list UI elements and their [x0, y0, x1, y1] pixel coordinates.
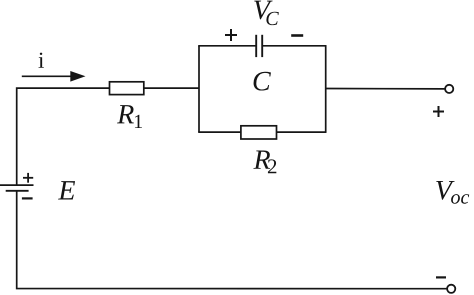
label V_C: [254, 1, 279, 26]
label R2: [253, 150, 276, 173]
minus sign at battery: [22, 197, 33, 199]
plus sign at battery: [23, 173, 33, 183]
wire: left vertical bottom segment and bottom wire to terminal: [17, 191, 447, 289]
wire: parallel block bottom-right segment: [277, 131, 327, 133]
plus sign at top terminal: [433, 106, 444, 117]
wire: node to top terminal: [326, 88, 445, 90]
wire: parallel block left side: [198, 46, 200, 132]
battery E: short plate: [6, 190, 29, 192]
current arrow: [22, 71, 86, 82]
label R1: [117, 105, 142, 128]
current label i: [38, 53, 43, 68]
resistor R1: [110, 82, 144, 95]
wire: parallel block top-left segment: [198, 45, 256, 47]
label E: [58, 181, 75, 199]
label V_oc: [436, 181, 469, 204]
wire: parallel block top-right segment: [262, 45, 326, 47]
wire: parallel block bottom-left segment: [198, 131, 241, 133]
minus sign at capacitor: [291, 34, 303, 37]
plus sign at capacitor: [225, 29, 237, 41]
minus sign at bottom terminal: [436, 276, 446, 278]
wire: R1 to parallel block: [144, 87, 199, 89]
top terminal circle: [445, 85, 453, 93]
wire: left vertical top segment and top wire to R1: [17, 88, 110, 185]
label C: [254, 72, 271, 91]
resistor R2: [241, 126, 277, 139]
bottom terminal circle: [447, 285, 455, 293]
wire: parallel block right side: [325, 46, 327, 132]
battery E: long plate: [0, 184, 34, 186]
capacitor C plates: [256, 35, 262, 57]
